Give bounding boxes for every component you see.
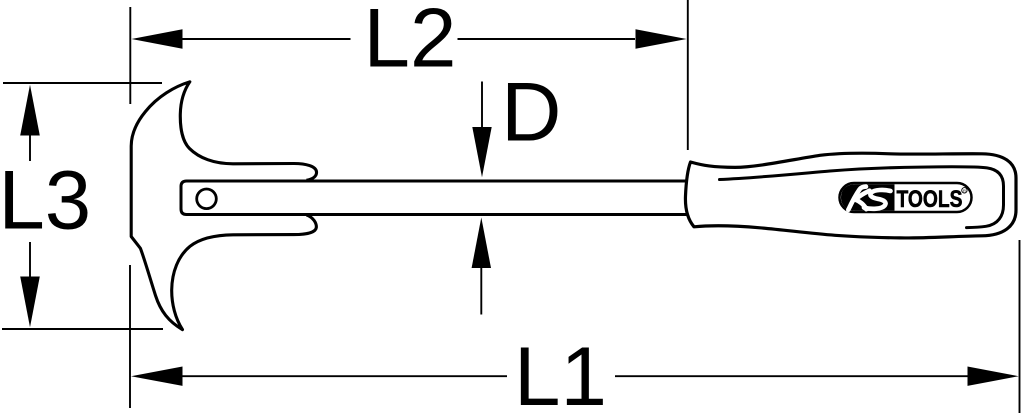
svg-text:D: D (501, 64, 561, 158)
svg-text:L2: L2 (364, 0, 457, 85)
svg-text:L1: L1 (514, 329, 607, 415)
svg-text:L3: L3 (0, 153, 91, 247)
svg-text:TOOLS: TOOLS (897, 186, 963, 213)
svg-text:R: R (963, 188, 966, 193)
